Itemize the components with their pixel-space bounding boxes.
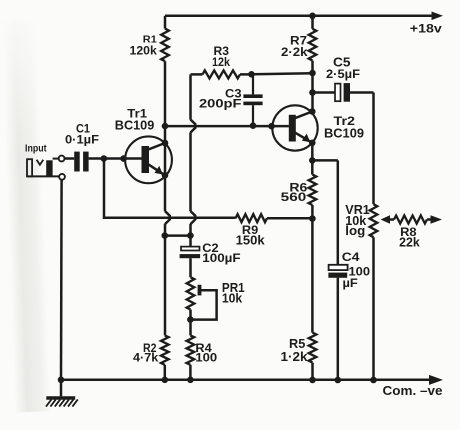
wire R7 bottom to Tr2 collector (311, 73, 314, 112)
capacitor C3 (199, 74, 263, 125)
capacitor C4 (328, 250, 370, 290)
svg-text:R5: R5 (289, 337, 305, 351)
node R7 bottom junction (309, 70, 316, 77)
svg-text:4·7k: 4·7k (133, 350, 159, 364)
potentiometer VR1 (345, 202, 377, 238)
svg-text:C4: C4 (342, 250, 360, 264)
svg-text:Com. –ve: Com. –ve (383, 383, 443, 398)
wire jack tip to C1 (65, 157, 75, 160)
resistor R4 (187, 335, 218, 379)
wire VR1 bottom to ground rail (372, 237, 375, 380)
node Tr2 emitter (309, 140, 316, 147)
wire C2 bottom to PR1 (189, 258, 192, 277)
capacitor C2 (180, 241, 241, 265)
resistor R6 (281, 175, 317, 205)
wire R1 bottom to Tr1 collector/emitter column (164, 61, 167, 211)
svg-text:10k: 10k (222, 292, 243, 306)
wire crossover hop at x190.5 over R9 wire (191, 211, 196, 224)
wire common negative rail (61, 375, 443, 385)
node bridge right (187, 232, 194, 239)
label Input (25, 144, 47, 155)
wire loop continues down (189, 132, 192, 211)
wire Tr1 emitter column down to R2 (164, 224, 167, 336)
node Tr1 emitter (162, 172, 169, 179)
svg-text:120k: 120k (130, 43, 158, 57)
node collector wire left (162, 123, 169, 130)
wire PR1 bottom to R4 (189, 310, 192, 336)
svg-text:log: log (345, 224, 365, 238)
svg-text:560: 560 (281, 190, 307, 204)
svg-text:BC109: BC109 (324, 125, 364, 140)
svg-text:BC109: BC109 (115, 118, 155, 133)
jack sleeve terminal (59, 174, 65, 180)
node bridge left (162, 232, 169, 239)
node Tr1 base circle entry (120, 155, 127, 162)
capacitor C1 (65, 122, 99, 172)
svg-text:150k: 150k (236, 234, 265, 248)
wire +18V supply rail (165, 12, 443, 21)
transistor Tr1 (115, 109, 172, 184)
resistor R5 (281, 333, 317, 380)
svg-text:1·2k: 1·2k (281, 350, 308, 364)
svg-text:0·1µF: 0·1µF (65, 133, 99, 147)
wire Tr1 base down to R9 (104, 159, 236, 218)
wire crossover hop at x165 over R9 wire (165, 211, 170, 224)
svg-text:100: 100 (195, 350, 217, 364)
wire Tr1 collector to Tr2 base (165, 125, 289, 128)
resistor R7 (281, 16, 316, 73)
resistor R8 (394, 216, 431, 250)
resistor R9 (236, 214, 313, 247)
wire emitter bridge (165, 234, 191, 237)
capacitor C5 (313, 55, 374, 101)
ground (46, 380, 78, 407)
input jack plug (27, 159, 59, 177)
svg-text:µF: µF (343, 276, 359, 290)
node R3 right junction (248, 71, 255, 78)
node rail ground junction (58, 377, 65, 384)
svg-text:12k: 12k (212, 55, 230, 69)
jack tip terminal (59, 156, 65, 162)
resistor R2 (133, 335, 169, 379)
svg-text:100µF: 100µF (202, 251, 241, 265)
node R9 right junction (309, 215, 316, 222)
svg-text:22k: 22k (399, 236, 420, 250)
node Tr1 collector (162, 140, 169, 147)
wire C5 to VR1 top (372, 93, 375, 205)
wire R6 bottom to R5 (311, 205, 314, 333)
node C5 junction (309, 89, 316, 96)
wire C4 bottom to ground rail (337, 278, 340, 380)
svg-text:200pF: 200pF (199, 98, 242, 111)
node C3 bottom junction (250, 122, 257, 129)
node Tr1 base feedback junction (101, 155, 108, 162)
resistor R3 (191, 45, 252, 78)
label +18v node (410, 22, 443, 36)
node Tr2 base circle entry (268, 123, 275, 130)
svg-text:2·2k: 2·2k (281, 45, 308, 59)
svg-text:+18v: +18v (410, 22, 443, 36)
wire crossover hop at x190.5 over collector-base wire (191, 120, 196, 133)
VR1 wiper arrow (381, 215, 395, 223)
wire loop down to C2 (189, 224, 192, 247)
node rail R4 junction (187, 377, 194, 384)
wire jack sleeve to ground rail (60, 180, 63, 380)
node rail R7 junction (309, 13, 316, 20)
node PR1 bottom junction (187, 316, 194, 323)
wire Tr2 emitter to C4 (312, 160, 338, 264)
node C4 branch junction (309, 157, 316, 164)
output arrow (431, 215, 443, 224)
node Tr2 collector (309, 108, 316, 115)
wire Tr2 emitter down (311, 143, 314, 175)
preset resistor PR1 (187, 277, 245, 319)
node rail R2 junction (162, 377, 169, 384)
node rail VR1 junction (370, 377, 377, 384)
node rail R5 junction (309, 377, 316, 384)
resistor R1 (130, 16, 169, 61)
label Com. -ve (383, 383, 443, 398)
svg-text:Input: Input (25, 144, 47, 155)
node rail C4 junction (335, 377, 342, 384)
svg-text:2·5µF: 2·5µF (326, 67, 361, 81)
transistor Tr2 (272, 105, 364, 150)
wire R3/C3 to R7/Tr2 collector (252, 73, 313, 74)
wire C1 to Tr1 base (89, 157, 142, 160)
wire R3 left lead down (loop to emitter bridge) (189, 74, 192, 119)
